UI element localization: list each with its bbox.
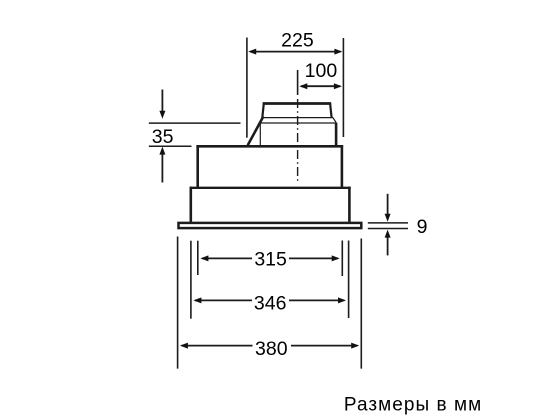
arrowhead 380 left xyxy=(180,343,188,349)
dim 315 line left segment xyxy=(202,257,252,259)
arrowhead 35 bottom (up) xyxy=(159,147,165,155)
arrowhead 315 left xyxy=(200,255,208,261)
hood mid step edge xyxy=(190,187,351,189)
svg-text:9: 9 xyxy=(417,216,428,238)
arrowhead 100 right xyxy=(334,83,342,89)
svg-text:Размеры в мм: Размеры в мм xyxy=(344,394,482,415)
dim 346 line left segment xyxy=(195,299,252,301)
collar flare left slant xyxy=(259,118,262,123)
arrowhead 346 left xyxy=(193,297,201,303)
svg-text:100: 100 xyxy=(305,60,338,82)
hood upper body right edge xyxy=(341,145,344,188)
centre line dash-dot xyxy=(297,99,299,182)
dim 380 right extension line xyxy=(360,239,362,369)
svg-text:225: 225 xyxy=(281,29,314,51)
hood upper body left edge xyxy=(196,145,199,188)
dim 9 lower arrow shaft xyxy=(387,236,389,255)
duct collar cap top xyxy=(263,102,332,105)
dim 100 line xyxy=(301,85,340,87)
dim 315 right extension line xyxy=(341,241,343,277)
dim 346 right extension line xyxy=(348,241,350,319)
dim 315 line right segment xyxy=(289,257,338,259)
dim 35 upper arrow shaft xyxy=(161,90,163,113)
svg-text:35: 35 xyxy=(152,126,174,148)
arrowhead 35 top (down) xyxy=(159,111,165,119)
collar cap left side xyxy=(262,104,264,118)
dim 346 line right segment xyxy=(289,299,344,301)
dim 9 upper reference line xyxy=(368,222,408,224)
dim 35 lower reference line xyxy=(149,145,192,147)
arrowhead 225 right xyxy=(334,49,342,55)
centre line solid tick xyxy=(297,70,299,95)
arrowhead 315 right xyxy=(332,255,340,261)
dim 225 right extension line xyxy=(342,38,344,137)
hood lower body left edge xyxy=(190,187,193,222)
arrowhead 380 right xyxy=(351,343,359,349)
dim 225 line xyxy=(250,51,341,53)
collar flare right slant xyxy=(333,118,337,123)
arrowhead 9 top (down) xyxy=(385,214,391,222)
dim 380 left extension line xyxy=(177,237,179,369)
arrowhead 100 left xyxy=(299,83,307,89)
dim 346 left extension line xyxy=(190,241,192,319)
hood upper body top edge xyxy=(196,145,343,148)
dim 9 lower reference line xyxy=(368,228,408,230)
collar cap right side xyxy=(330,104,332,118)
collar left lower edge (thin) xyxy=(259,123,261,146)
svg-text:380: 380 xyxy=(255,338,288,360)
base plate xyxy=(179,223,362,228)
svg-text:315: 315 xyxy=(254,248,287,270)
dim 225 left extension line xyxy=(246,38,248,138)
arrowhead 225 left xyxy=(248,49,256,55)
dim 35 lower arrow shaft xyxy=(161,153,163,183)
dim 35 upper reference line xyxy=(149,122,241,124)
collar flare lower line xyxy=(259,122,336,124)
dim 380 line left segment xyxy=(182,345,253,347)
arrowhead 346 right xyxy=(338,297,346,303)
hood lower body right edge xyxy=(348,187,351,222)
mounting bracket slant xyxy=(248,116,264,145)
dim 315 left extension line xyxy=(197,241,199,275)
dim 380 line right segment xyxy=(291,345,358,347)
arrowhead 9 bottom (up) xyxy=(385,230,391,238)
collar flare upper line xyxy=(262,117,333,119)
dim 9 upper arrow shaft xyxy=(387,194,389,216)
svg-text:346: 346 xyxy=(254,293,287,315)
collar right lower edge xyxy=(335,123,338,146)
